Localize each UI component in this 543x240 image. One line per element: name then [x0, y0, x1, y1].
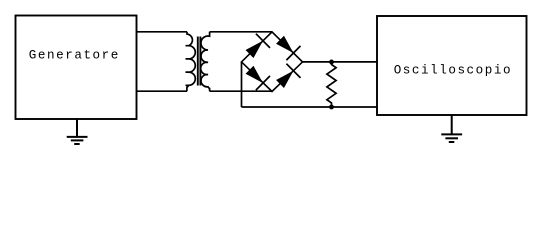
wire secondary top to bridge top vertex — [210, 31, 272, 33]
svg-text:Oscilloscopio: Oscilloscopio — [394, 64, 512, 78]
resistor R1 — [327, 62, 336, 107]
generator box U1 "Generatore" — [16, 16, 137, 120]
diode D1 (left vertex to top vertex) — [247, 34, 270, 57]
wire bridge right vertex to oscilloscope (+ output) — [303, 61, 378, 63]
svg-text:Generatore: Generatore — [29, 49, 120, 63]
diode bridge diamond edges — [242, 32, 303, 92]
diode D2 (top vertex to right vertex) — [277, 37, 300, 60]
transformer T1 core — [197, 37, 199, 86]
ground GND2 — [441, 115, 462, 142]
oscilloscope box U2 "Oscilloscopio" — [377, 16, 527, 115]
transformer T1 secondary winding — [201, 32, 210, 91]
diode D4 (bottom vertex to right vertex) — [277, 64, 300, 87]
junction dot top of resistor — [329, 60, 334, 65]
wire from Generatore to transformer primary top — [137, 31, 188, 33]
transformer T1 primary winding — [186, 32, 196, 91]
ground GND1 — [67, 119, 88, 144]
wire from Generatore to transformer primary bottom — [137, 90, 188, 92]
wire bridge left vertex down and right (- output) — [242, 62, 378, 107]
junction dot bottom of resistor — [329, 105, 334, 110]
diode D3 (left vertex to bottom vertex) — [247, 67, 270, 90]
wire secondary bottom to bridge bottom vertex — [210, 90, 272, 92]
